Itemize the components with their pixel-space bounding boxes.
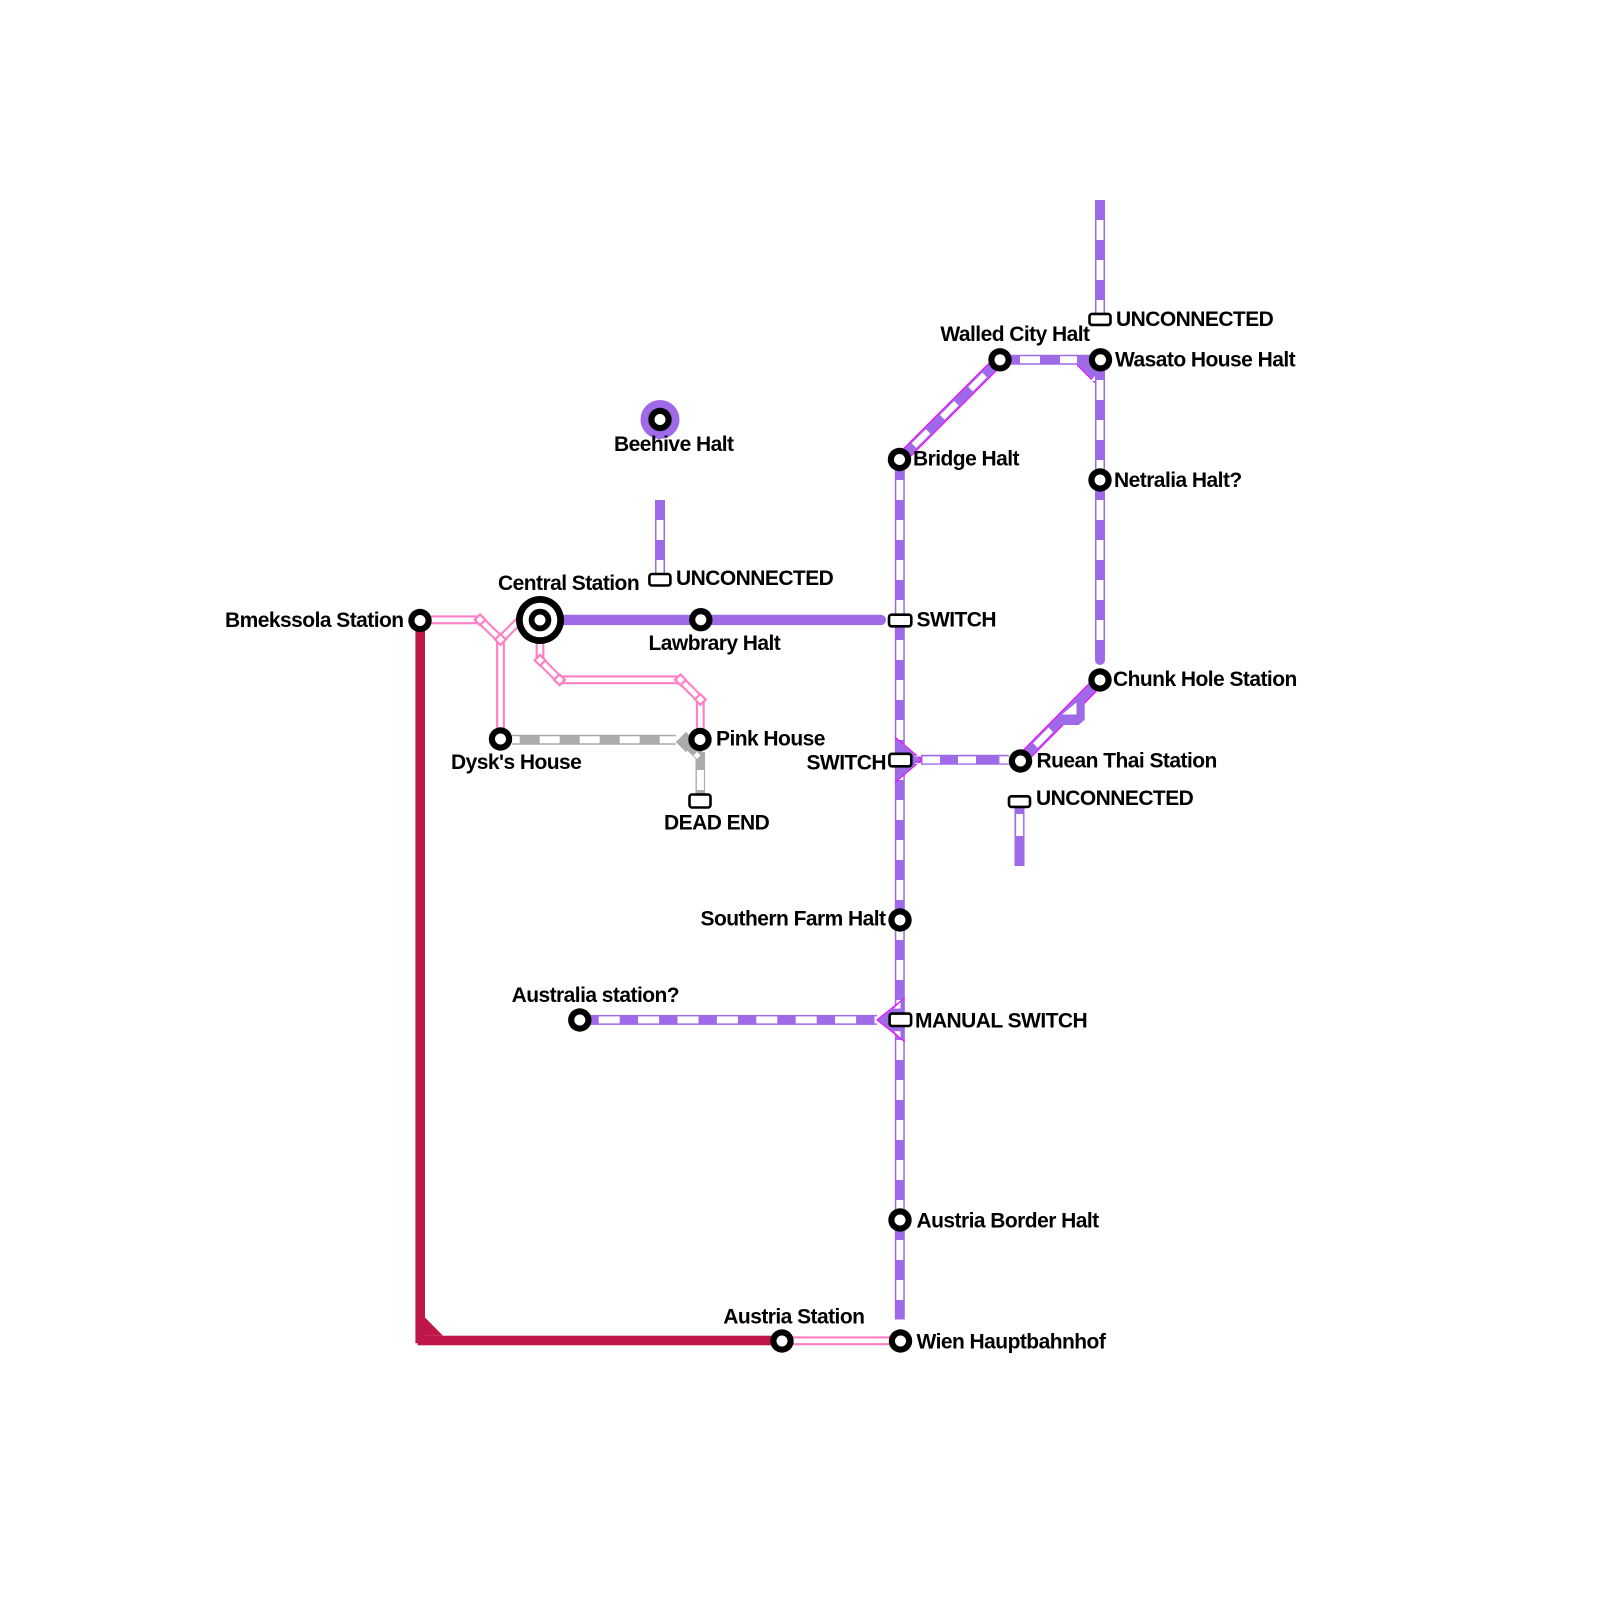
svg-text:SWITCH: SWITCH (806, 752, 886, 775)
station Ruean Thai Station (1009, 749, 1032, 772)
station Pink House (688, 728, 711, 751)
wire: pink Austria Station to Wien Hauptbahnhof (782, 1336, 900, 1345)
svg-text:Pink House: Pink House (716, 727, 825, 750)
svg-text:Chunk Hole Station: Chunk Hole Station (1113, 668, 1297, 691)
svg-text:Central Station: Central Station (498, 572, 639, 595)
station Wasato House Halt (1089, 348, 1112, 371)
node: junction triangle at lower SWITCH (895, 737, 922, 783)
svg-text:Wien Hauptbahnhof: Wien Hauptbahnhof (917, 1331, 1107, 1354)
wire: pink diagonal node E to node F (681, 680, 701, 700)
svg-text:Netralia Halt?: Netralia Halt? (1114, 469, 1242, 492)
node: UNCONNECTED box Beehive stub (649, 574, 670, 586)
node: pink diamond A (475, 614, 486, 625)
station Austria Border Halt (888, 1208, 911, 1231)
station Bridge Halt (888, 448, 911, 471)
node: UNCONNECTED box Ruean Thai (1009, 796, 1030, 807)
station Dysk's House (489, 727, 512, 750)
node: UNCONNECTED box top (1090, 314, 1111, 325)
wire: purple horizontal Walled City to Wasato House (1000, 355, 1100, 365)
station Wien Hauptbahnhof (889, 1329, 912, 1352)
wire: pink horizontal node D to node E (560, 675, 681, 684)
svg-text:Australia station?: Australia station? (512, 984, 679, 1007)
node: DEAD END box (690, 795, 711, 808)
node: SWITCH box upper (889, 615, 911, 627)
wire: pink vertical node B to Dysk's House (496, 640, 505, 736)
svg-text:MANUAL SWITCH: MANUAL SWITCH (915, 1009, 1087, 1032)
svg-text:Walled City Halt: Walled City Halt (940, 323, 1090, 346)
svg-text:Bridge Halt: Bridge Halt (913, 448, 1020, 471)
node: pink diamond D (554, 674, 565, 685)
wire: purple vertical Wasato to Netralia (1095, 364, 1105, 481)
node: pink diamond F (695, 694, 706, 705)
wire: purple solid horizontal Central Station to SWITCH (560, 615, 881, 625)
svg-text:Southern Farm Halt: Southern Farm Halt (701, 908, 887, 931)
wire: pink route Bmekssola to node A (431, 615, 480, 624)
svg-text:UNCONNECTED: UNCONNECTED (1036, 787, 1194, 810)
wire: pink vertical node F to Pink House (696, 700, 705, 735)
svg-text:Lawbrary Halt: Lawbrary Halt (649, 632, 781, 655)
wire: purple stub below UNCONNECTED near Ruean Thai (1016, 807, 1023, 866)
node: Wasato corner fill (1077, 355, 1105, 383)
svg-text:Austria Station: Austria Station (723, 1306, 864, 1329)
svg-text:UNCONNECTED: UNCONNECTED (1116, 308, 1274, 331)
svg-text:Austria Border Halt: Austria Border Halt (917, 1210, 1100, 1233)
station Beehive Halt (648, 408, 671, 431)
node: gray junction diamond below Pink House (676, 732, 696, 752)
wire: purple horizontal Australia line (585, 1015, 877, 1025)
svg-text:Bmekssola Station: Bmekssola Station (225, 609, 404, 632)
wire: crimson route Bmekssola to Austria Station (415, 630, 782, 1345)
svg-text:UNCONNECTED: UNCONNECTED (676, 567, 834, 590)
wire: purple horizontal SWITCH to Ruean Thai (900, 756, 1009, 763)
station Bmekssola Station (408, 609, 431, 632)
station Southern Farm Halt (888, 908, 911, 931)
svg-text:Beehive Halt: Beehive Halt (614, 433, 734, 456)
node: junction triangle at MANUAL SWITCH (877, 998, 905, 1042)
station Walled City Halt (988, 348, 1011, 371)
station Lawbrary Halt (689, 608, 712, 631)
station Central Station (516, 596, 564, 644)
svg-text:Dysk's House: Dysk's House (451, 751, 581, 774)
node: white notch diamond on gray (693, 752, 700, 759)
wire: pink diagonal node A to node B (480, 620, 501, 640)
wire: purple main vertical line x=900 (895, 460, 905, 1320)
wire: pink vertical below Central Station (536, 640, 545, 660)
node: junction step on Chunk-Ruean diagonal (1061, 702, 1085, 726)
wire: purple diagonal Bridge Halt to Walled City Halt (900, 360, 1000, 460)
wire: gray vertical to DEAD END (696, 752, 706, 795)
wire: gray diagonal Pink House junction (686, 742, 700, 757)
wire: gray route Dysk's House to Pink House (512, 735, 676, 745)
wire: purple vertical Netralia to Chunk Hole (1095, 481, 1105, 660)
wire: pink diagonal to node D (540, 660, 560, 680)
station Chunk Hole Station (1088, 668, 1111, 691)
station Netralia Halt (1088, 468, 1111, 491)
node: pink diamond C (535, 655, 546, 666)
svg-text:Wasato House Halt: Wasato House Halt (1115, 349, 1296, 372)
wire: purple diagonal Chunk Hole to Ruean Thai (1021, 680, 1101, 761)
svg-text:DEAD END: DEAD END (664, 812, 770, 835)
station Australia station (568, 1008, 591, 1031)
node: pink diamond E (675, 674, 686, 685)
svg-text:SWITCH: SWITCH (917, 609, 997, 632)
wire: purple Beehive stub above UNCONNECTED (655, 500, 665, 574)
node: pink diamond B (495, 634, 506, 645)
wire: pink diagonal node B to Central Station (501, 618, 523, 640)
station Austria Station (770, 1329, 793, 1352)
station Beehive Halt purple halo (641, 400, 680, 439)
node: MANUAL SWITCH box (890, 1014, 912, 1026)
svg-text:Ruean Thai Station: Ruean Thai Station (1037, 750, 1217, 773)
wire: purple top stub above UNCONNECTED (1095, 200, 1105, 314)
node: SWITCH box lower (889, 754, 911, 767)
